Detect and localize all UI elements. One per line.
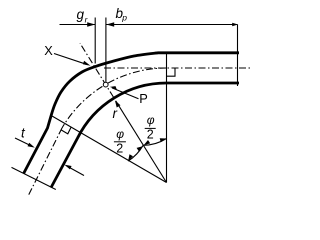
svg-text:P: P <box>139 91 148 106</box>
svg-text:g: g <box>77 7 85 22</box>
svg-text:φ: φ <box>147 113 155 127</box>
svg-text:X: X <box>44 43 53 58</box>
svg-text:r: r <box>113 106 118 121</box>
svg-text:p: p <box>121 13 127 23</box>
svg-text:2: 2 <box>116 142 123 156</box>
svg-text:φ: φ <box>116 127 124 141</box>
svg-text:2: 2 <box>147 128 154 142</box>
